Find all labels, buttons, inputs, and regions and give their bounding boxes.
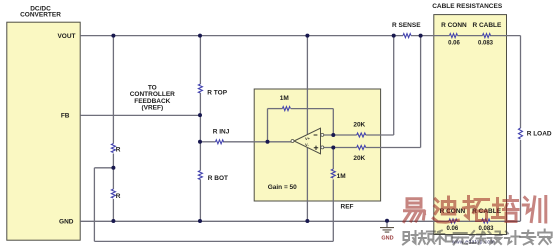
svg-text:VOUT: VOUT <box>57 33 75 40</box>
watermark gray character he <box>436 231 452 245</box>
wire load vertical <box>520 36 522 221</box>
watermark gray character she <box>403 231 418 245</box>
svg-text:GND: GND <box>381 235 393 241</box>
junction FB node <box>198 113 202 117</box>
watermark gray character wu <box>453 233 469 245</box>
op-amp U1 <box>291 128 324 154</box>
svg-text:R TOP: R TOP <box>207 89 227 96</box>
junction R SENSE right <box>419 34 423 38</box>
svg-text:GND: GND <box>59 218 74 225</box>
wire V- to ground <box>306 148 308 221</box>
wire non-inverting input <box>324 36 421 148</box>
watermark red character xun <box>523 197 546 223</box>
junction GND symbol <box>385 219 389 223</box>
junction GND / R BOT <box>198 219 202 223</box>
resistor R upper <box>111 144 120 154</box>
resistor R INJ <box>213 128 230 143</box>
wire inverting input <box>324 36 394 135</box>
resistor R TOP <box>198 84 227 96</box>
junction op-amp output / feedback <box>266 140 270 144</box>
resistor R CONN bottom <box>440 208 466 232</box>
junction VOUT / R TOP <box>198 34 202 38</box>
resistor R CABLE bottom <box>472 208 502 232</box>
resistor R CABLE top <box>472 22 502 46</box>
watermark red character tuo <box>464 197 489 221</box>
cable resistances block box <box>432 3 506 235</box>
svg-text:CONVERTER: CONVERTER <box>20 12 61 19</box>
wire VOUT rail <box>80 35 520 37</box>
svg-text:R CABLE: R CABLE <box>472 22 502 29</box>
junction GND / divider <box>111 219 115 223</box>
ground symbol <box>380 221 394 241</box>
wire divider tap <box>94 168 113 242</box>
watermark red character di <box>433 197 458 222</box>
wire V+ supply <box>306 36 308 135</box>
watermark gray character jia <box>538 230 552 245</box>
wire feedback loop <box>268 109 334 142</box>
svg-text:R INJ: R INJ <box>213 128 230 135</box>
resistor R LOAD <box>519 128 552 139</box>
junction non-inverting input node <box>331 146 335 150</box>
wire bottom REF rail <box>94 240 333 242</box>
watermark gray character xian <box>470 231 485 244</box>
resistor R lower <box>111 189 120 200</box>
watermark gray character pin <box>419 231 435 244</box>
watermark URL text <box>452 239 495 245</box>
junction VOUT / divider <box>111 34 115 38</box>
resistor 1M to REF <box>331 169 345 180</box>
svg-text:R LOAD: R LOAD <box>527 130 552 137</box>
wire divider vertical <box>112 36 114 221</box>
junction VOUT / V+ supply <box>305 34 309 38</box>
junction VOUT / R SENSE left <box>392 34 396 38</box>
svg-text:R SENSE: R SENSE <box>392 22 421 29</box>
junction injection node <box>198 140 202 144</box>
svg-text:CABLE RESISTANCES: CABLE RESISTANCES <box>432 3 503 10</box>
node REF label <box>341 203 354 210</box>
watermark gray character ji <box>505 231 520 244</box>
svg-text:R: R <box>116 193 121 200</box>
resistor R SENSE <box>392 22 421 38</box>
wire GND rail <box>80 220 520 222</box>
svg-text:Gain = 50: Gain = 50 <box>268 184 297 191</box>
svg-text:FB: FB <box>61 112 70 119</box>
svg-text:0.083: 0.083 <box>478 226 494 232</box>
watermark red character pei <box>493 197 519 222</box>
DC/DC converter block <box>7 5 80 240</box>
junction inverting input node <box>331 133 335 137</box>
svg-text:R BOT: R BOT <box>208 175 228 182</box>
text to controller feedback <box>130 85 175 112</box>
pin label FB <box>61 112 70 119</box>
svg-text:0.06: 0.06 <box>448 40 460 46</box>
svg-text:R: R <box>116 147 121 154</box>
pin label GND <box>59 218 74 225</box>
svg-text:0.06: 0.06 <box>447 226 459 232</box>
watermark gray character she2 <box>488 232 502 245</box>
resistor R CONN top <box>441 22 467 46</box>
junction GND / V- supply <box>305 219 309 223</box>
wire REF vertical <box>332 148 334 242</box>
svg-text:(VREF): (VREF) <box>141 105 163 112</box>
wire injection / op-amp output <box>200 141 291 143</box>
svg-text:20K: 20K <box>353 122 365 129</box>
watermark red character yi <box>404 199 425 222</box>
resistor 20K lower <box>353 146 365 163</box>
svg-text:V+: V+ <box>305 136 311 141</box>
svg-text:20K: 20K <box>353 155 365 162</box>
watermark gray character zhuan <box>520 231 535 245</box>
svg-text:1M: 1M <box>280 95 289 102</box>
resistor 20K upper <box>353 122 365 138</box>
wire FB <box>80 114 200 116</box>
svg-text:V-: V- <box>305 142 309 147</box>
wire R TOP / R BOT vertical <box>199 36 201 222</box>
svg-text:R CONN: R CONN <box>441 22 467 29</box>
svg-text:1M: 1M <box>337 173 346 180</box>
junction divider tap <box>111 166 115 170</box>
resistor R BOT <box>198 171 228 183</box>
svg-text:0.083: 0.083 <box>478 40 494 46</box>
pin label VOUT <box>57 33 75 40</box>
svg-text:REF: REF <box>341 203 354 210</box>
resistor 1M feedback <box>280 95 291 111</box>
op-amp block box <box>254 89 380 201</box>
